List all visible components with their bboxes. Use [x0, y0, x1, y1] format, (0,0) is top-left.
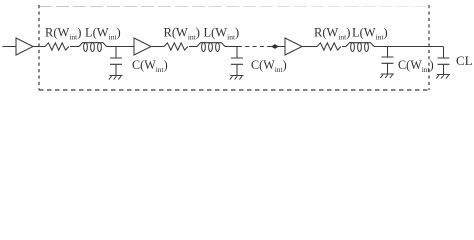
buffer U1 — [16, 38, 33, 55]
ground of C1 — [109, 76, 123, 80]
capacitor C1 C(Wint) — [110, 47, 122, 76]
wire U3 output — [302, 46, 317, 48]
arrowhead on continuation wire — [271, 44, 279, 49]
ground of CL — [436, 75, 450, 79]
wire L1 to U2 — [107, 46, 135, 48]
capacitor CL — [438, 47, 450, 75]
wire U1 output — [33, 46, 45, 48]
dashed box bottom edge — [39, 89, 429, 91]
dashed box left edge — [38, 5, 40, 90]
inductor L2 L(Wint) — [197, 43, 225, 47]
ground of C2 — [230, 76, 244, 80]
resistor R3 R(Wint) — [317, 43, 341, 50]
wire U2 output — [151, 46, 164, 48]
capacitor C2 C(Wint) — [231, 47, 243, 76]
wire input — [3, 46, 17, 48]
dashed box top edge (faint) — [39, 6, 429, 8]
capacitor C3 C(Wint) — [382, 47, 394, 75]
wire R1-L1 — [70, 46, 79, 48]
dashed continuation wire — [238, 46, 271, 48]
wire R2-L2 — [189, 46, 197, 48]
ground of C3 — [380, 74, 394, 78]
resistor R1 R(Wint) — [45, 43, 69, 50]
wire L2 to node — [225, 46, 238, 48]
wire L3 to CL (node C3) — [374, 46, 444, 48]
dashed box right edge — [428, 5, 430, 90]
inductor L3 L(Wint) — [346, 43, 374, 47]
wire R3-L3 — [342, 46, 346, 48]
svg-text:CL: CL — [456, 53, 473, 68]
wire into U3 — [271, 46, 285, 48]
buffer U3 — [285, 38, 302, 55]
inductor L1 L(Wint) — [79, 43, 107, 47]
resistor R2 R(Wint) — [164, 43, 188, 50]
buffer U2 — [134, 38, 151, 55]
